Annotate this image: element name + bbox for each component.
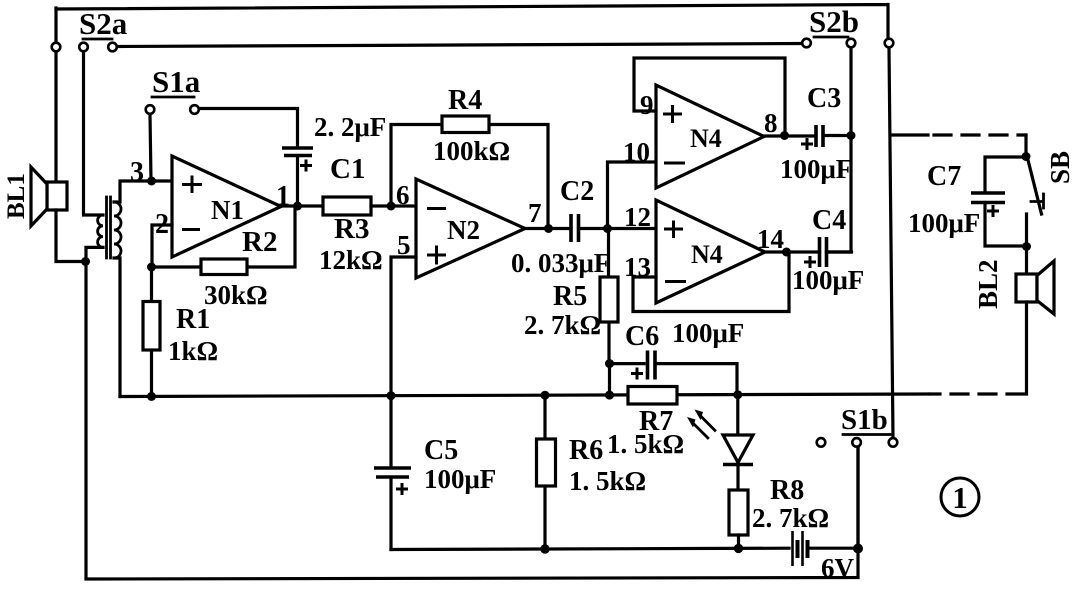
- node N2 output junction: [528, 198, 553, 233]
- wire S2a middle down to transformer primary top: [84, 52, 104, 215]
- svg-text:S2a: S2a: [79, 6, 128, 41]
- svg-text:C7: C7: [927, 161, 961, 192]
- svg-text:2. 7kΩ: 2. 7kΩ: [524, 310, 601, 340]
- svg-text:14: 14: [757, 224, 784, 254]
- svg-text:C6: C6: [625, 321, 659, 352]
- wire N4 upper output: [764, 134, 816, 137]
- node N1 output junction: [276, 181, 302, 212]
- wire pin 10 route: [608, 137, 657, 229]
- svg-text:0. 033μF: 0. 033μF: [511, 248, 610, 278]
- svg-text:12: 12: [624, 202, 651, 232]
- switch S2a: [52, 43, 117, 52]
- speaker BL2: [973, 247, 1054, 315]
- node bottom/R6 junction: [540, 544, 549, 553]
- switch SB: [1027, 151, 1076, 247]
- svg-text:13: 13: [624, 252, 651, 282]
- node C3/S2b junction: [847, 131, 856, 140]
- svg-text:N4: N4: [690, 124, 722, 153]
- op-amp N4 upper: [656, 85, 764, 188]
- svg-text:2. 7kΩ: 2. 7kΩ: [752, 503, 829, 533]
- capacitor C4: [792, 205, 864, 295]
- node bottom/R8 junction: [734, 544, 743, 553]
- capacitor C3: [780, 83, 852, 184]
- svg-text:2. 2μF: 2. 2μF: [314, 112, 386, 142]
- node after C2 junction: [603, 224, 612, 233]
- wire BL1 bottom to ground node: [56, 210, 85, 262]
- svg-text:S1b: S1b: [841, 404, 888, 436]
- switch S1b: [817, 438, 898, 447]
- node main/R6 junction: [541, 391, 550, 400]
- svg-text:R1: R1: [176, 304, 210, 335]
- svg-text:R2: R2: [242, 226, 277, 258]
- resistor R4 feedback loop: [391, 85, 548, 229]
- node 8 junction: [764, 108, 789, 140]
- svg-text:S1a: S1a: [152, 64, 201, 99]
- node main/pin5/C5 junction: [387, 391, 396, 400]
- svg-text:C1: C1: [330, 153, 365, 185]
- node R2/R1/pin2 junction: [147, 263, 156, 272]
- op-amp N4 lower: [656, 200, 765, 303]
- node R5/C6 junction: [605, 359, 614, 368]
- wire secondary bottom down to main line: [114, 258, 120, 397]
- transformer T primary coil: [98, 215, 103, 247]
- svg-text:10: 10: [623, 137, 650, 167]
- svg-text:1. 5kΩ: 1. 5kΩ: [607, 429, 684, 459]
- svg-text:R8: R8: [770, 475, 804, 506]
- node SB top junction: [1022, 152, 1031, 161]
- svg-text:100μF: 100μF: [672, 318, 744, 348]
- capacitor C2: [511, 176, 610, 278]
- resistor R6: [537, 395, 647, 549]
- pin 2 label and wire: [152, 209, 172, 267]
- svg-text:100μF: 100μF: [424, 464, 496, 494]
- transformer T core: [107, 197, 111, 258]
- svg-text:100μF: 100μF: [908, 208, 980, 238]
- node bottom/S1b junction: [853, 544, 863, 554]
- svg-text:8: 8: [764, 108, 778, 138]
- switch S2b: [802, 39, 893, 48]
- svg-text:C2: C2: [560, 176, 594, 207]
- transformer T secondary coil: [114, 202, 121, 258]
- svg-text:BL2: BL2: [973, 259, 1003, 309]
- svg-text:C3: C3: [807, 83, 841, 114]
- node main/R5 junction: [605, 391, 614, 400]
- svg-text:100μF: 100μF: [780, 154, 852, 184]
- svg-text:BL1: BL1: [3, 173, 30, 219]
- switch S2a label: [79, 6, 128, 41]
- wire BL1 top from top rail: [54, 8, 57, 182]
- svg-text:S2b: S2b: [809, 4, 859, 39]
- op-amp N2: [416, 179, 525, 278]
- resistor R1: [143, 267, 218, 397]
- wire bottom line: [391, 447, 858, 550]
- wire right vertical S2b to S1b: [889, 48, 893, 437]
- wire R5 to main line: [608, 364, 611, 396]
- pin 5 label and wire: [391, 230, 416, 396]
- svg-text:9: 9: [640, 90, 654, 120]
- diode VD: [723, 395, 753, 490]
- wire S1a right to C1 top: [200, 109, 298, 147]
- capacitor C7: [908, 157, 1027, 246]
- svg-text:30kΩ: 30kΩ: [204, 280, 268, 310]
- pin 13 feedback loop: [624, 252, 789, 312]
- svg-text:C5: C5: [424, 435, 458, 466]
- figure number 1: [941, 478, 979, 516]
- switch S1a label: [152, 64, 201, 99]
- resistor R8: [729, 475, 829, 549]
- svg-text:6: 6: [396, 180, 410, 210]
- svg-text:SB: SB: [1045, 151, 1075, 184]
- capacitor C5: [374, 396, 496, 550]
- wire left border down and bottom border: [86, 262, 858, 580]
- switch S1a: [146, 105, 199, 114]
- node ground junction: [81, 257, 90, 266]
- wire rail2 S2a to S2b: [118, 44, 802, 47]
- wire S1a left to node 3: [150, 115, 151, 182]
- wire N1 output: [281, 204, 323, 207]
- svg-text:1: 1: [952, 480, 968, 515]
- svg-text:1kΩ: 1kΩ: [168, 336, 218, 366]
- svg-text:R3: R3: [334, 213, 369, 245]
- wire C2 to pin 12: [579, 227, 657, 230]
- svg-text:7: 7: [528, 198, 542, 228]
- svg-text:N4: N4: [691, 240, 723, 269]
- svg-text:12kΩ: 12kΩ: [319, 245, 383, 275]
- capacitor C6: [610, 318, 745, 395]
- wire main horizontal line: [120, 394, 928, 397]
- svg-text:3: 3: [130, 157, 144, 188]
- svg-text:6V: 6V: [821, 553, 855, 583]
- node 6 junction: [387, 180, 410, 211]
- svg-text:100μF: 100μF: [792, 265, 864, 295]
- wire N4 lower output: [765, 250, 820, 253]
- wire primary bottom to ground node: [86, 247, 103, 261]
- wire top rail: [56, 5, 888, 39]
- wire secondary top to node 3: [114, 181, 172, 202]
- resistor R2: [152, 206, 296, 310]
- battery GB 6V: [793, 531, 855, 583]
- svg-text:R5: R5: [553, 281, 587, 312]
- svg-text:100kΩ: 100kΩ: [433, 136, 510, 166]
- svg-text:N1: N1: [211, 195, 244, 225]
- svg-text:N2: N2: [447, 215, 480, 245]
- resistor R5: [524, 229, 618, 364]
- pin 12 label: [624, 202, 651, 232]
- svg-text:R6: R6: [569, 435, 603, 466]
- node main/R1 junction: [147, 392, 156, 401]
- pin 9 feedback loop: [634, 58, 785, 136]
- switch S2b label: [809, 4, 859, 39]
- speaker BL1: [3, 167, 67, 226]
- wire dashed top to SB: [892, 135, 1026, 153]
- wire S2b middle down to C3/C4: [827, 48, 852, 252]
- LED arrows: [687, 410, 715, 438]
- node 3 junction: [130, 157, 156, 188]
- op-amp N1: [172, 156, 281, 257]
- wire N2 output: [525, 227, 571, 230]
- wire BL2 bottom dashed to main line: [930, 302, 1027, 394]
- resistor R7: [607, 387, 684, 460]
- switch S1b label: [841, 404, 890, 436]
- svg-text:C4: C4: [812, 205, 846, 236]
- node main/C6/diode junction: [733, 390, 742, 399]
- resistor R3: [319, 197, 416, 275]
- node SB bottom junction: [1022, 242, 1031, 251]
- node 14 junction: [757, 224, 791, 257]
- svg-text:1. 5kΩ: 1. 5kΩ: [569, 466, 646, 496]
- capacitor C1: [282, 112, 386, 206]
- svg-text:R4: R4: [448, 85, 482, 116]
